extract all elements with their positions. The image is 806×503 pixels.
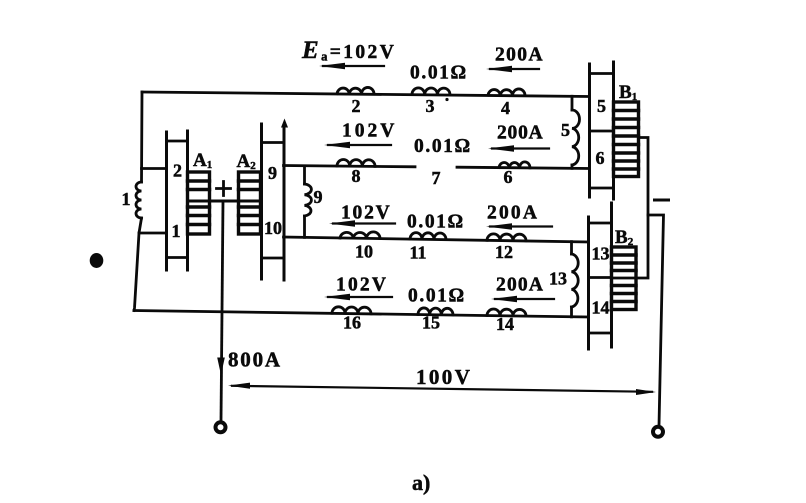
artifact speck: [445, 98, 448, 101]
svg-text:14: 14: [496, 314, 514, 334]
svg-text:100V: 100V: [416, 365, 472, 389]
svg-text:5: 5: [561, 120, 570, 140]
svg-text:102V: 102V: [342, 121, 397, 142]
brush B2 hatched: [612, 247, 637, 310]
brush B1 hatched: [614, 102, 639, 177]
svg-text:a): a): [412, 470, 430, 495]
commutator A1 left rail: [165, 132, 168, 270]
inductor 14: [487, 309, 526, 316]
commutator A2 right rail: [283, 126, 286, 280]
wire row2 branch left part: [284, 166, 416, 167]
svg-text:10: 10: [264, 218, 282, 238]
terminal left circle: [216, 422, 226, 432]
arrow row3 voltage: [333, 222, 395, 224]
commutator A2 left rail: [260, 124, 263, 279]
svg-text:200A: 200A: [496, 275, 544, 296]
inductor 3: [412, 88, 450, 95]
commutator B2 right rail: [610, 203, 613, 347]
svg-text:3: 3: [426, 96, 435, 116]
svg-text:16: 16: [343, 313, 361, 333]
brush A1 hatched: [188, 172, 210, 234]
wire row4 branch: [134, 311, 589, 318]
svg-text:11: 11: [409, 243, 426, 263]
svg-text:200A: 200A: [495, 45, 544, 66]
arrow 800A down on center wire: [217, 358, 225, 376]
commutator B2 rungs: [589, 223, 612, 333]
svg-text:1: 1: [172, 221, 181, 241]
svg-text:5: 5: [597, 96, 606, 116]
arrow row1 current: [490, 68, 539, 70]
wire row1 top branch: [142, 92, 588, 97]
terminal right circle: [653, 427, 663, 437]
commutator A2 bottom rung: [262, 257, 284, 260]
svg-text:13: 13: [592, 244, 610, 264]
node minus mark: [655, 199, 669, 202]
commutator B1 right rail: [612, 62, 615, 199]
commutator B1 left rail: [588, 64, 591, 197]
arrow up on A2 rail: [281, 119, 288, 128]
inductor 9: [305, 184, 312, 216]
svg-text:13: 13: [549, 269, 567, 289]
inductor 4: [488, 89, 525, 96]
arrow row4 current: [495, 298, 554, 300]
commutator B2 left rail: [587, 217, 590, 349]
svg-text:6: 6: [596, 148, 605, 168]
wire coil9 stub: [303, 166, 306, 237]
arrow row4 voltage: [328, 296, 392, 298]
commutator A1 top rung: [167, 140, 188, 143]
arrow row2 voltage: [328, 144, 391, 146]
wire left stub to A1 upper: [142, 167, 167, 170]
svg-text:200A: 200A: [497, 123, 544, 144]
commutator B1 rungs: [590, 74, 614, 189]
wire coil5 stub: [571, 96, 574, 168]
svg-text:7: 7: [432, 168, 441, 188]
wire below coil 1: [134, 218, 142, 311]
wire 100V measurement line: [232, 386, 652, 392]
wire jog to right bus: [648, 215, 664, 426]
inductor 10: [340, 232, 380, 239]
svg-text:9: 9: [268, 163, 277, 183]
arrow row3 current: [490, 225, 552, 227]
artifact blob: [90, 253, 104, 268]
inductor 5: [572, 110, 580, 165]
commutator A1 right rail: [186, 131, 189, 270]
wire row2 branch right part: [457, 167, 590, 168]
svg-text:102V: 102V: [341, 203, 392, 224]
inductor 13: [572, 254, 579, 307]
svg-text:800A: 800A: [228, 348, 282, 372]
svg-text:12: 12: [495, 242, 513, 262]
svg-text:14: 14: [592, 298, 610, 318]
svg-text:10: 10: [355, 242, 373, 262]
wire center vertical from + junction to terminal: [221, 201, 223, 421]
svg-text:0.01Ω: 0.01Ω: [414, 136, 472, 157]
inductor 16: [332, 307, 371, 314]
wire left loop vertical: [140, 92, 143, 182]
wire B1 brush output: [612, 138, 649, 279]
inductor 12: [487, 234, 526, 241]
svg-text:2: 2: [352, 96, 361, 116]
svg-text:200A: 200A: [487, 203, 539, 224]
svg-text:6: 6: [504, 167, 513, 187]
arrow row2 current: [492, 147, 549, 149]
brush A2 hatched: [239, 172, 261, 234]
node + polarity mark: [217, 182, 231, 196]
wire coil13 stub: [570, 242, 573, 317]
svg-text:Ea=102V: Ea=102V: [301, 37, 396, 64]
svg-text:0.01Ω: 0.01Ω: [407, 212, 465, 233]
inductor 15: [418, 308, 453, 315]
svg-text:15: 15: [422, 313, 440, 333]
svg-text:1: 1: [122, 189, 131, 209]
svg-text:9: 9: [314, 187, 323, 207]
inductor 11: [410, 233, 446, 240]
svg-text:0.01Ω: 0.01Ω: [410, 63, 468, 84]
wire row3 branch: [284, 237, 589, 242]
wire A1 to A2 armature link: [188, 200, 261, 203]
svg-text:2: 2: [173, 161, 182, 181]
svg-text:102V: 102V: [336, 275, 388, 296]
inductor 6: [499, 162, 530, 168]
svg-text:0.01Ω: 0.01Ω: [408, 286, 466, 307]
commutator A1 bottom rung: [167, 256, 188, 259]
inductor 2: [337, 87, 374, 94]
arrow row1 voltage: [323, 65, 384, 67]
inductor 1: [136, 182, 142, 218]
svg-text:8: 8: [352, 166, 361, 186]
svg-text:4: 4: [501, 98, 510, 118]
commutator A2 top rung: [262, 141, 284, 144]
inductor 8: [337, 159, 375, 166]
wire left stub to A1 lower: [139, 232, 167, 235]
